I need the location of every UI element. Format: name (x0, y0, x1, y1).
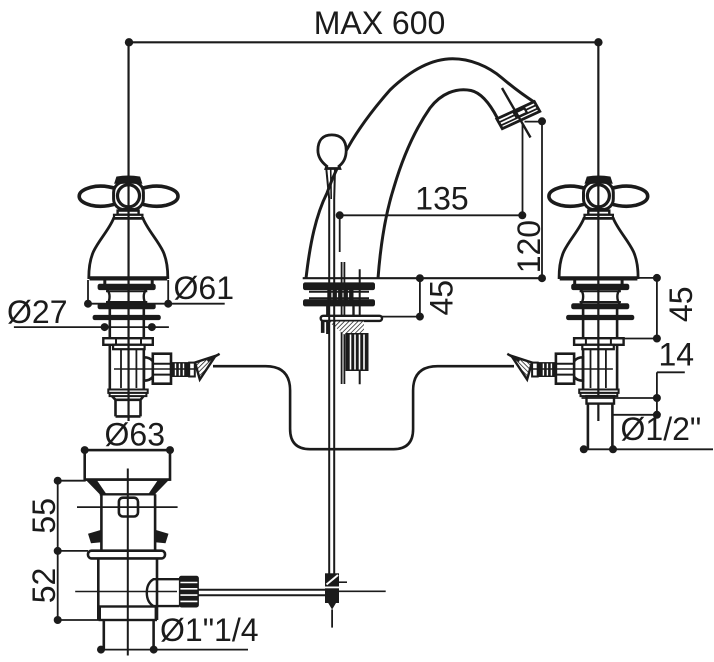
dim O27 (14, 326, 169, 328)
spout body fill (306, 59, 535, 279)
clamp bar (321, 316, 382, 321)
svg-text:Ø1"1/4: Ø1"1/4 (160, 612, 259, 648)
svg-text:Ø27: Ø27 (7, 294, 67, 330)
drain lower tube (97, 558, 100, 620)
svg-text:14: 14 (659, 337, 695, 373)
dim 45 right (656, 278, 658, 339)
right valve tail collar (587, 396, 615, 404)
knob stem (326, 169, 329, 199)
svg-text:52: 52 (26, 568, 62, 604)
drain body tube (100, 494, 103, 550)
guide rod lines (341, 262, 343, 384)
spout escutcheon bar 1 (304, 283, 375, 290)
left valve tail box (112, 396, 144, 416)
dim 120 (541, 121, 543, 278)
drain square detail (119, 498, 138, 517)
pop-up knob (318, 135, 346, 169)
left flexible hose (213, 366, 337, 449)
spout spool lines (309, 291, 369, 293)
drain tailpiece (103, 620, 106, 650)
drain knurled nut (179, 576, 198, 607)
svg-text:MAX 600: MAX 600 (314, 5, 446, 41)
dim MAX600 line (129, 41, 598, 43)
svg-text:55: 55 (26, 498, 62, 534)
dim 55/52 (57, 481, 59, 620)
drain basin flange bar (88, 551, 165, 559)
horizontal pop-up rod (198, 589, 330, 591)
drain clips (88, 530, 101, 544)
aerator slash (502, 88, 531, 138)
pop-up lift rod (328, 199, 330, 574)
dim O1-1/4 baseline (101, 649, 248, 651)
spout escutcheon bar 2 (304, 300, 375, 306)
svg-text:120: 120 (511, 220, 547, 273)
svg-text:Ø1/2": Ø1/2" (621, 411, 702, 447)
aerator band (497, 102, 540, 129)
dim 135 (340, 214, 523, 216)
dim half inch baseline (584, 448, 713, 450)
right valve tail tube (587, 404, 590, 450)
spout outer curve (306, 59, 535, 279)
drain outlet centerline (75, 591, 177, 593)
stud rod (359, 269, 361, 384)
svg-text:Ø63: Ø63 (105, 417, 165, 453)
svg-text:45: 45 (423, 280, 459, 316)
svg-text:135: 135 (415, 180, 468, 216)
svg-text:45: 45 (663, 287, 699, 323)
drain taper wedges (85, 478, 170, 480)
drain centerline (127, 469, 129, 656)
dimension dots (54, 38, 661, 654)
right flexible hose (337, 366, 514, 449)
svg-text:Ø61: Ø61 (174, 270, 234, 306)
right valve and handle (mirrored) (507, 42, 647, 421)
drain outlet pipe (147, 579, 180, 606)
dim O63 (85, 449, 170, 451)
spout inner curve (378, 90, 497, 279)
aerator notch (514, 108, 527, 117)
drain compression band (100, 607, 156, 621)
left valve and handle (79, 42, 219, 421)
threaded tail (striped) (346, 334, 368, 371)
drain flange (85, 450, 170, 480)
dim 45 center (419, 278, 421, 316)
spout shank sides (326, 306, 328, 334)
spout escutcheon hatched block (327, 283, 353, 306)
clamp stub (321, 321, 325, 333)
dim O61 (87, 280, 89, 304)
deck line (303, 277, 542, 279)
clamp hatch wedge (328, 322, 364, 351)
T-junction clamp (326, 574, 339, 586)
dim 14 (657, 371, 685, 373)
